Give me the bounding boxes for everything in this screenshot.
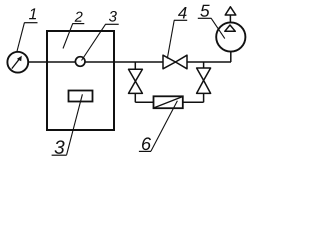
label 4: [178, 7, 187, 18]
leader line for label 4: [167, 20, 174, 58]
label 3 (top): [109, 11, 117, 22]
box 2 (enclosure): [47, 31, 114, 130]
leader line for label 1: [17, 23, 25, 52]
device 5 inner triangle: [225, 25, 236, 31]
label 5: [200, 5, 209, 17]
leader line for label 3 (top): [82, 24, 106, 60]
wire: left branch vertical: [134, 62, 136, 102]
sensor circle 3: [75, 57, 85, 67]
wire: right branch vertical: [203, 62, 205, 102]
gauge 1 needle arrowhead: [17, 56, 22, 61]
leader line for label 3 (bottom): [67, 94, 83, 155]
valve 4 (horizontal bowtie): [163, 55, 176, 69]
right vertical valve (bowtie on right branch): [197, 68, 211, 80]
label 3 (bottom): [55, 140, 65, 153]
leader line for label 2: [63, 24, 73, 49]
leader line for label 5: [211, 18, 225, 38]
wire: main horizontal line: [29, 61, 232, 63]
leader line for label 6: [151, 101, 178, 151]
wire: bottom bypass line: [135, 101, 203, 103]
gauge 1 (manometer circle): [7, 52, 28, 73]
label 6: [142, 137, 151, 150]
element 3 small rectangle: [69, 91, 93, 102]
element 6 diagonal: [154, 97, 183, 108]
wire: stub above circle 5: [229, 14, 231, 23]
wire: stub from circle 5 down to main line: [230, 50, 232, 62]
gauge 1 needle: [12, 58, 20, 69]
device 5 circle: [216, 22, 245, 51]
label 1: [29, 8, 36, 19]
label 2: [75, 12, 83, 22]
device 5 upper triangle (above circle): [225, 7, 236, 15]
left vertical valve (bowtie on left branch): [129, 69, 143, 81]
element 6 (filter: rectangle with diagonal): [154, 96, 183, 108]
